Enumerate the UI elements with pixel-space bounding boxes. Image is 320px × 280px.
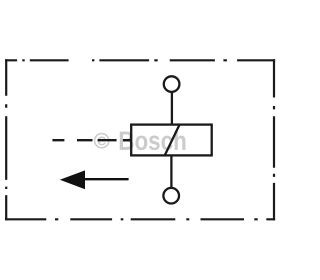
actuation direction arrow (shaft) [84,178,129,180]
wire from top terminal to switch body [171,92,173,125]
actuator linkage (dashed line to switch body) [52,139,131,141]
enclosure outline left edge (dash-dot) [5,59,7,220]
switch body S1 (rectangle) [131,125,212,156]
watermark © Bosch [95,126,187,156]
terminal circle (top) [164,76,180,92]
actuation direction arrow (head) [60,170,85,189]
enclosure outline top edge (dash-dot) [5,59,275,61]
enclosure outline right edge (dash-dot) [273,59,275,220]
wire from switch body to bottom terminal [170,155,172,188]
enclosure outline bottom edge (dash-dot) [5,218,275,220]
terminal circle (bottom) [163,188,179,204]
switch contact diagonal inside body [165,125,180,156]
